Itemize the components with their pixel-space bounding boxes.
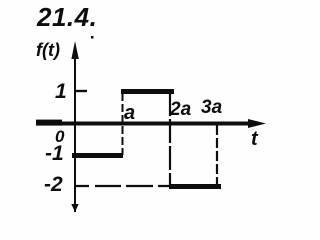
dashed riser at 3a <box>216 125 218 187</box>
step segment level +1 (a to 2a) <box>121 89 174 94</box>
x-axis start thickening <box>36 120 62 126</box>
x-axis arrowhead <box>248 119 266 128</box>
x-axis line <box>36 122 249 126</box>
svg-text:3a: 3a <box>201 97 223 118</box>
dashed riser at a <box>122 93 124 155</box>
svg-text:1: 1 <box>55 80 67 103</box>
svg-text:f(t): f(t) <box>36 40 60 60</box>
dashed level line -2 (axis to 2a) <box>76 185 169 187</box>
svg-text:t: t <box>251 128 259 150</box>
svg-text:2a: 2a <box>169 99 192 120</box>
y-axis line <box>74 47 76 212</box>
step segment level -1 (0 to a) <box>72 153 123 158</box>
step segment level -2 (2a to 3a) <box>169 184 221 189</box>
y-axis arrowhead <box>71 41 78 59</box>
speck <box>91 36 94 39</box>
svg-text:a: a <box>124 102 135 124</box>
tick +1 on y-axis <box>75 90 87 92</box>
svg-text:21.4.: 21.4. <box>36 2 97 32</box>
dashed riser at 2a <box>169 92 171 187</box>
svg-text:-1: -1 <box>45 142 64 165</box>
y-axis bottom blob <box>71 204 78 212</box>
svg-text:-2: -2 <box>44 173 63 196</box>
